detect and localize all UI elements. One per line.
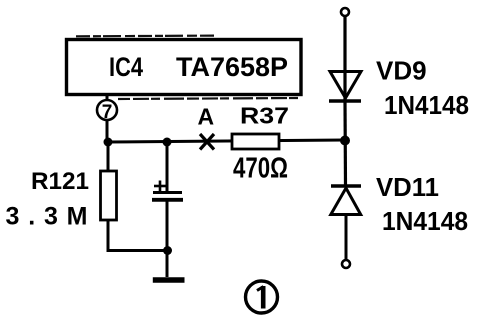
terminal top xyxy=(341,8,349,16)
capacitor C1 bottom plate xyxy=(152,198,183,202)
pin 7 xyxy=(97,100,117,120)
node junction left xyxy=(104,138,113,147)
op-amp U1 IC4 box xyxy=(67,40,302,95)
svg-text:VD9: VD9 xyxy=(376,56,427,86)
svg-text:7: 7 xyxy=(102,102,113,123)
wire node to capacitor xyxy=(166,142,169,192)
diode VD11 xyxy=(331,184,361,188)
wire main horizontal xyxy=(107,140,345,142)
wire to R121 xyxy=(107,142,110,172)
svg-text:A: A xyxy=(198,104,215,130)
node A X mark xyxy=(200,134,214,150)
wire R121 bottom xyxy=(107,220,110,251)
wire bottom horizontal xyxy=(107,249,168,252)
wire VD9 to VD11 xyxy=(343,101,347,186)
wire pin7 to main node xyxy=(106,96,109,142)
wire VD11 to bottom terminal xyxy=(345,214,348,260)
svg-text:R121: R121 xyxy=(31,168,89,195)
node junction bottom xyxy=(163,246,172,255)
figure number 1 xyxy=(246,281,278,313)
terminal bottom xyxy=(342,260,350,268)
svg-text:1N4148: 1N4148 xyxy=(384,90,469,120)
resistor R37 xyxy=(232,134,279,149)
svg-text:470Ω: 470Ω xyxy=(233,153,288,185)
ground xyxy=(153,277,185,283)
capacitor C1 top plate xyxy=(153,191,182,194)
svg-text:TA7658P: TA7658P xyxy=(176,52,288,82)
svg-text:VD11: VD11 xyxy=(376,172,439,202)
capacitor C1 plus mark xyxy=(154,185,166,188)
svg-text:R37: R37 xyxy=(240,103,289,129)
svg-text:1N4148: 1N4148 xyxy=(382,206,468,236)
wire top terminal to VD9 xyxy=(343,16,346,101)
diode VD9 xyxy=(330,72,361,99)
node junction capacitor branch xyxy=(163,138,172,147)
svg-text:IC4: IC4 xyxy=(109,52,143,82)
resistor R121 xyxy=(101,171,117,220)
wire capacitor to ground xyxy=(166,200,169,277)
svg-text:3.3M: 3.3M xyxy=(6,203,88,231)
node junction right xyxy=(340,136,350,146)
